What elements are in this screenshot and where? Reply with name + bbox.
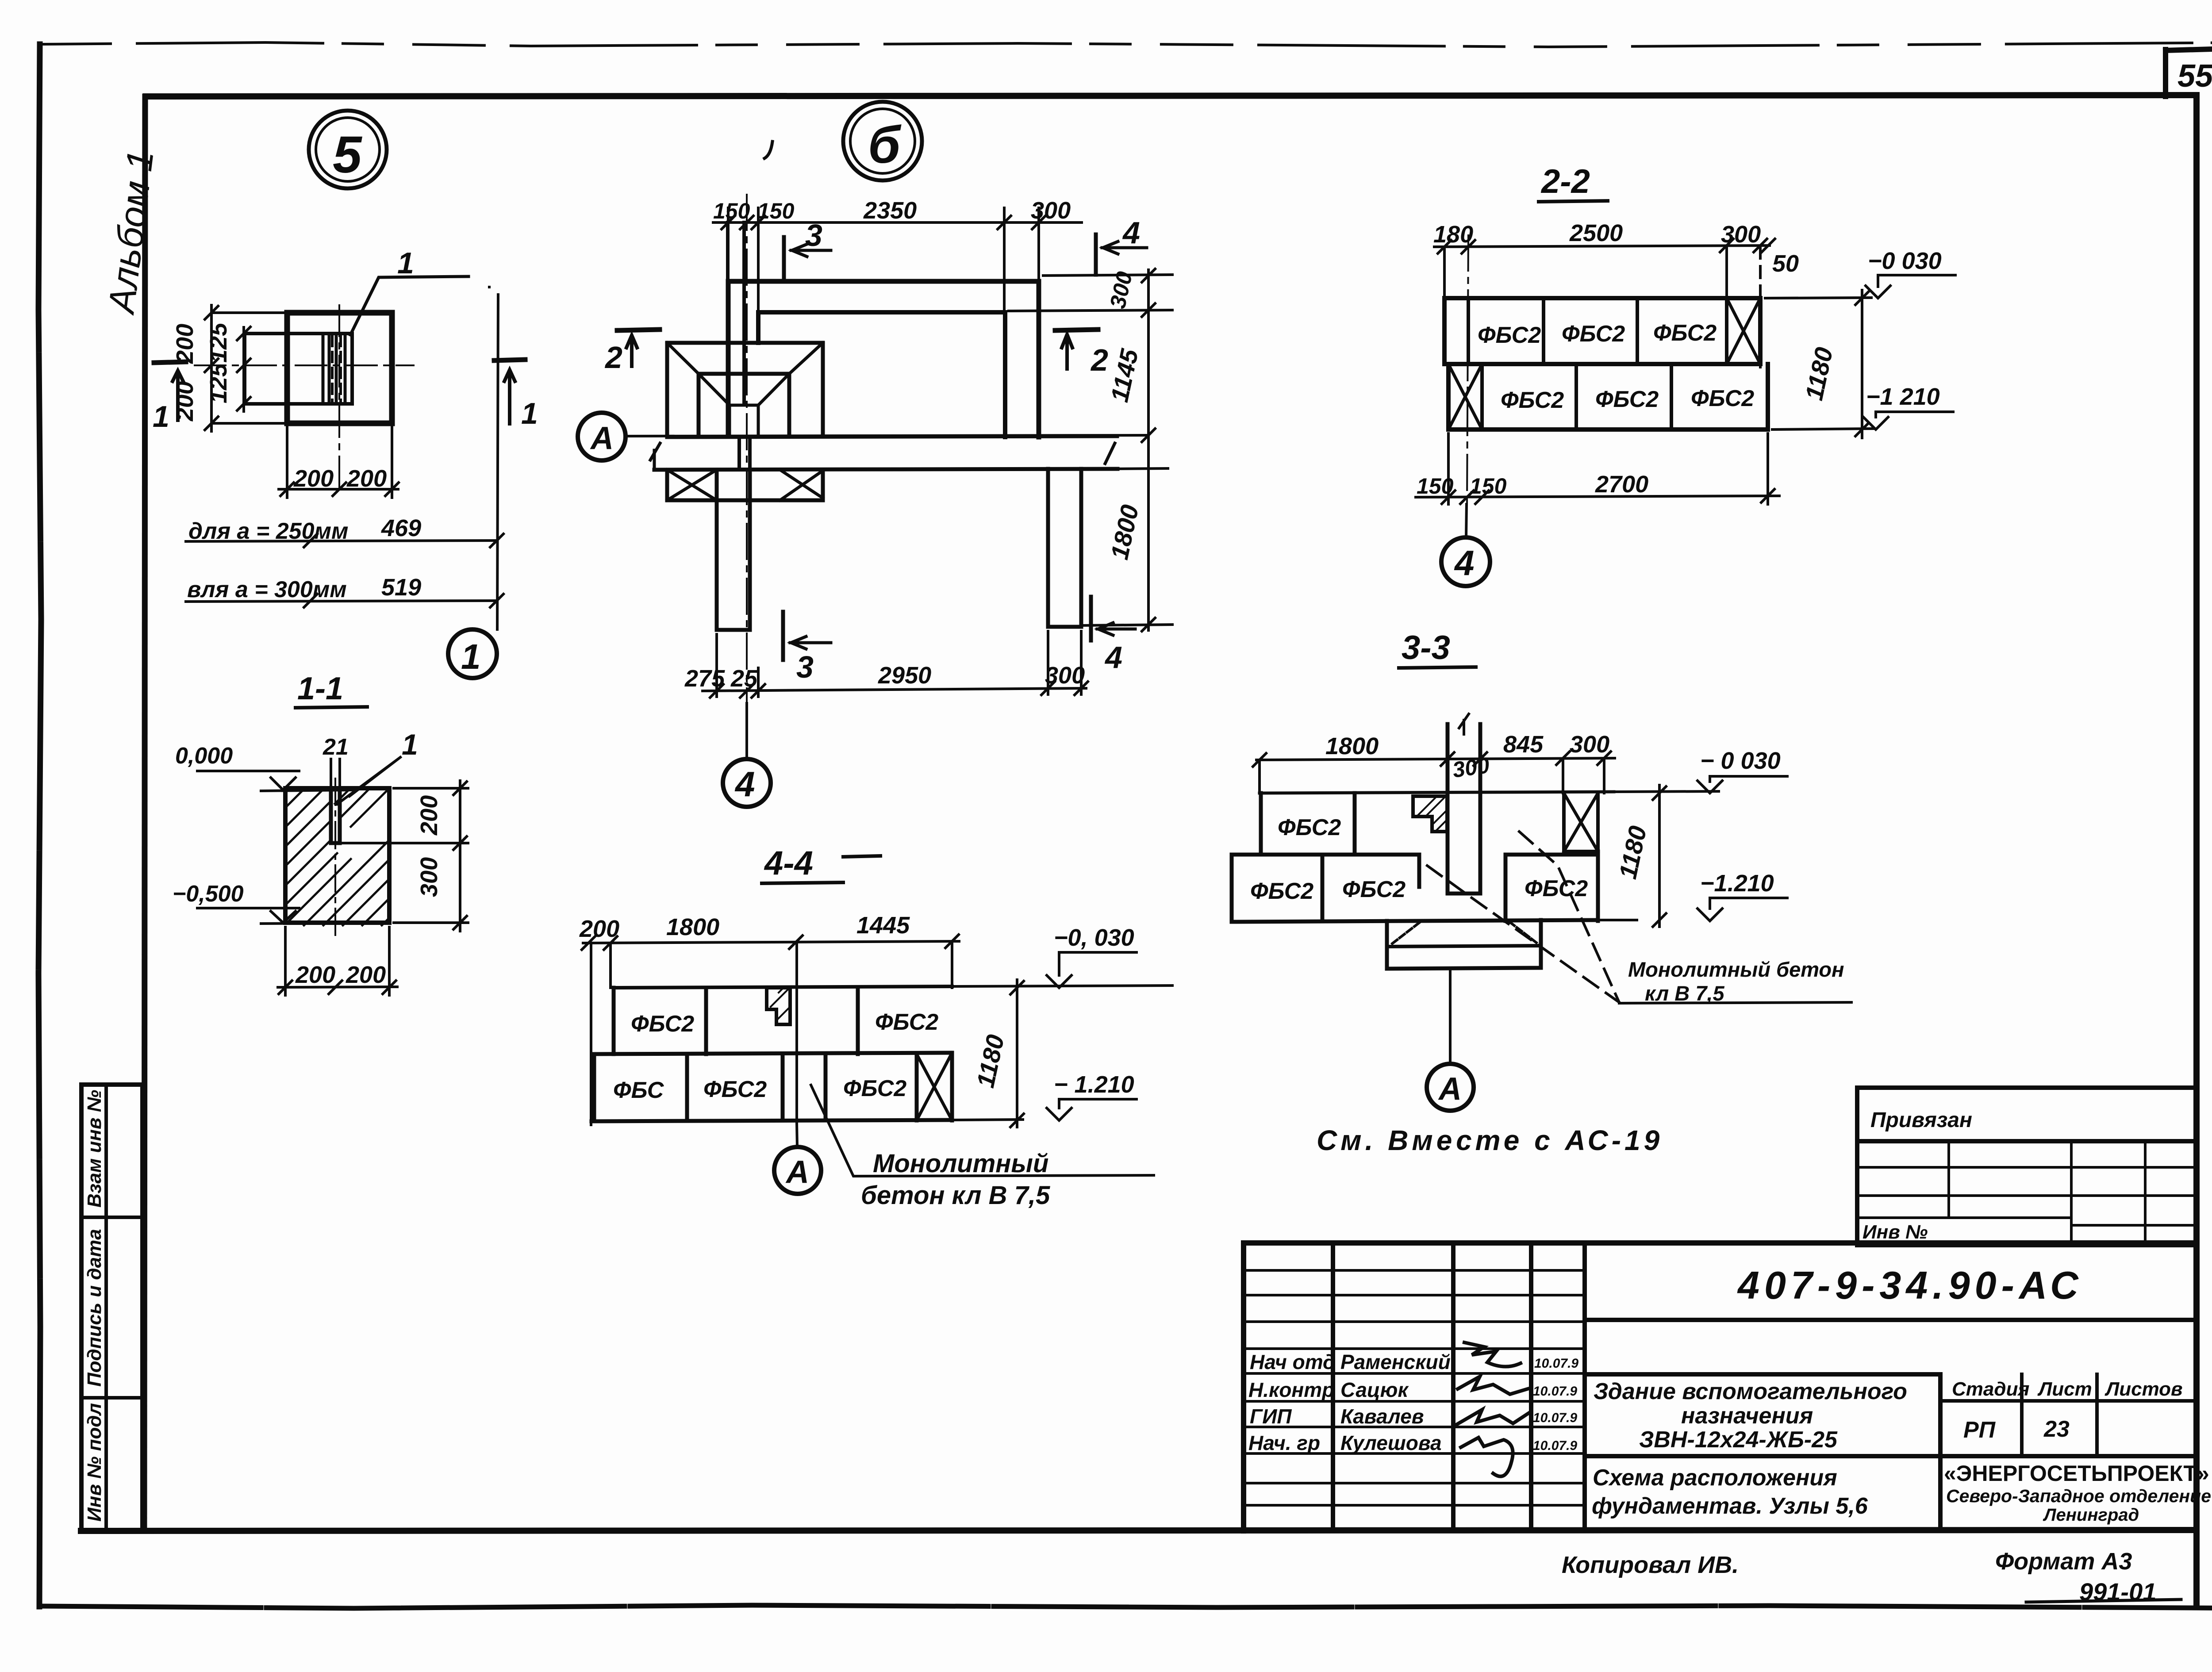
section 3-3 row B — [1232, 851, 1637, 922]
svg-text:б: б — [868, 116, 902, 174]
section 3-3 axis circle A — [1427, 969, 1474, 1111]
svg-text:125: 125 — [205, 363, 232, 403]
section 3-3 level -0.030 — [1697, 748, 1787, 793]
detail 5 table row a=250 — [186, 515, 503, 547]
svg-text:ФБС2: ФБС2 — [1525, 876, 1588, 901]
стадия лист листов — [1940, 1374, 2197, 1456]
svg-text:−0,500: −0,500 — [173, 881, 244, 907]
svg-text:200: 200 — [295, 962, 335, 988]
node circle 4 below — [723, 703, 771, 807]
svg-text:−1.210: −1.210 — [1700, 870, 1774, 897]
detail Б right dim chain 300 1145 1800 — [1009, 269, 1172, 631]
svg-text:Инв №: Инв № — [1863, 1221, 1928, 1243]
svg-text:300: 300 — [1451, 753, 1491, 782]
svg-text:4: 4 — [1104, 640, 1122, 675]
svg-text:1: 1 — [402, 728, 418, 761]
section 1-1 label — [296, 671, 367, 708]
svg-text:фундаментав. Узлы 5,6: фундаментав. Узлы 5,6 — [1592, 1493, 1868, 1519]
svg-text:Здание вспомогательного: Здание вспомогательного — [1594, 1379, 1907, 1404]
sheet number box top-right — [2166, 49, 2212, 96]
svg-text:200: 200 — [172, 381, 198, 422]
section 4-4 label — [762, 844, 880, 883]
svg-text:Взам инв №: Взам инв № — [84, 1090, 105, 1208]
svg-text:ЗВН-12х24-ЖБ-25: ЗВН-12х24-ЖБ-25 — [1639, 1427, 1838, 1453]
detail Б circle marker — [843, 102, 922, 180]
svg-text:2350: 2350 — [863, 197, 917, 224]
svg-text:ГИП: ГИП — [1250, 1405, 1292, 1428]
detail Б lower pad — [667, 470, 823, 500]
svg-text:3: 3 — [796, 650, 814, 684]
svg-text:125: 125 — [205, 322, 232, 363]
svg-text:Подпись и дата: Подпись и дата — [84, 1229, 105, 1387]
svg-text:Монолитный бетон: Монолитный бетон — [1628, 958, 1844, 981]
section 3-3 socket base — [1387, 920, 1541, 969]
svg-text:Н.контр: Н.контр — [1248, 1378, 1334, 1401]
svg-text:300: 300 — [1570, 731, 1609, 758]
svg-text:ФБС2: ФБС2 — [1250, 878, 1313, 904]
left stamp column table — [81, 1085, 142, 1531]
svg-text:Кулешова: Кулешова — [1340, 1431, 1442, 1454]
detail Б wall inner line — [758, 312, 1005, 437]
svg-text:А: А — [590, 421, 614, 456]
svg-text:2: 2 — [604, 340, 622, 375]
svg-text:55: 55 — [2177, 58, 2212, 94]
svg-text:21: 21 — [323, 734, 349, 760]
svg-text:Монолитный: Монолитный — [873, 1149, 1048, 1178]
svg-text:Северо-Западное отделение: Северо-Западное отделение — [1946, 1486, 2211, 1506]
detail 5 dim chain 125/125 — [205, 322, 250, 411]
section 3-3 column — [1448, 714, 1480, 894]
svg-text:А: А — [785, 1154, 809, 1190]
name box — [1585, 1374, 2197, 1456]
title block column lines left part — [1333, 1243, 1585, 1531]
section 2-2 level -0.030 — [1866, 248, 1955, 298]
svg-text:1-1: 1-1 — [297, 671, 343, 706]
section 3-3 level -1.210 — [1697, 870, 1787, 921]
svg-text:1800: 1800 — [666, 914, 719, 940]
svg-text:ФБС2: ФБС2 — [703, 1077, 767, 1102]
detail 5 plan: centre line vertical — [338, 305, 340, 493]
svg-text:50: 50 — [1772, 250, 1799, 277]
axis A circle — [578, 413, 626, 460]
svg-text:Стадия: Стадия — [1952, 1378, 2029, 1400]
svg-text:25: 25 — [730, 665, 758, 692]
svg-text:Нач отд: Нач отд — [1250, 1350, 1335, 1373]
section 1-1 bottom dims 200/200 — [278, 927, 397, 995]
section 3-3 leaders to monolith — [1427, 832, 1851, 1003]
svg-text:2700: 2700 — [1595, 471, 1648, 498]
svg-text:ФБС2: ФБС2 — [1691, 386, 1754, 411]
svg-text:200: 200 — [346, 465, 387, 492]
doc number box — [1585, 1318, 2197, 1322]
section 2-2 node circle 4 — [1441, 504, 1490, 586]
detail Б descending pier — [717, 470, 750, 630]
stray mark — [764, 142, 772, 158]
section cut 4 bottom — [1091, 597, 1135, 675]
detail 5 circle marker — [309, 111, 387, 188]
detail 5 section cut 1 left — [153, 362, 186, 433]
привязан table — [1857, 1088, 2197, 1245]
svg-text:4-4: 4-4 — [764, 844, 813, 882]
svg-text:−0 030: −0 030 — [1868, 248, 1942, 274]
svg-text:2500: 2500 — [1569, 220, 1623, 246]
section 3-3 top surface line — [1260, 792, 1614, 793]
svg-text:2-2: 2-2 — [1540, 163, 1590, 200]
detail 5 plan: thick square — [287, 313, 392, 423]
detail 5 leader 1 — [350, 246, 469, 335]
section 1-1 right dims 200/300 — [343, 781, 468, 931]
svg-text:ФБС2: ФБС2 — [1653, 320, 1717, 346]
svg-text:бетон кл В 7,5: бетон кл В 7,5 — [861, 1181, 1050, 1210]
section cut 2 right — [1055, 330, 1108, 377]
svg-text:вля а = 300мм: вля а = 300мм — [187, 577, 347, 602]
svg-text:300: 300 — [416, 857, 442, 897]
svg-text:200: 200 — [293, 465, 334, 492]
axis A line — [626, 435, 1146, 436]
svg-text:Листов: Листов — [2104, 1378, 2183, 1400]
detail 5 dim chain 200/200 — [172, 305, 218, 431]
section 1-1 centreline — [334, 778, 336, 937]
svg-text:Инв № подл: Инв № подл — [84, 1403, 105, 1522]
svg-text:407-9-34.90-АС: 407-9-34.90-АС — [1737, 1263, 2083, 1307]
section 1-1 hatched block — [285, 788, 389, 925]
svg-text:1: 1 — [397, 246, 414, 280]
svg-text:Схема расположения: Схема расположения — [1593, 1465, 1837, 1491]
section 4-4 monolith leader — [811, 1085, 1154, 1210]
svg-text:1: 1 — [521, 397, 538, 430]
title block row lines left part — [1244, 1270, 1585, 1505]
title block outline — [1244, 1243, 2197, 1531]
detail Б wall outer rect — [728, 281, 1039, 437]
svg-text:Кавалев: Кавалев — [1340, 1405, 1424, 1428]
svg-text:2950: 2950 — [878, 662, 931, 689]
scan outer border bottom — [40, 1605, 2212, 1608]
svg-text:519: 519 — [381, 574, 421, 601]
svg-text:−1 210: −1 210 — [1866, 383, 1940, 410]
section 1-1 slot width 21 — [323, 734, 349, 785]
detail 5 plan: inner recess rect — [245, 334, 352, 404]
svg-text:200: 200 — [579, 916, 619, 942]
svg-text:150: 150 — [1470, 474, 1507, 499]
svg-text:ФБС2: ФБС2 — [843, 1076, 906, 1101]
section 4-4 level -0,030 — [1047, 924, 1137, 988]
svg-text:200: 200 — [346, 962, 386, 988]
svg-text:10.07.9: 10.07.9 — [1533, 1384, 1577, 1399]
svg-text:−0, 030: −0, 030 — [1054, 924, 1134, 951]
svg-text:1: 1 — [153, 400, 169, 433]
scan outer border left — [38, 44, 41, 1607]
svg-text:Привязан: Привязан — [1870, 1108, 1972, 1132]
svg-text:Сацюк: Сацюк — [1340, 1378, 1409, 1401]
svg-text:Лист: Лист — [2037, 1378, 2092, 1400]
svg-text:Раменский: Раменский — [1340, 1350, 1451, 1373]
section cut 2 left — [604, 330, 660, 375]
section 2-2 row2 blocks — [1448, 364, 1768, 430]
detail 5 plan: centre line horizontal — [195, 364, 414, 366]
detail Б column axis centreline — [746, 195, 748, 752]
svg-text:4: 4 — [1122, 215, 1140, 250]
svg-text:− 0 030: − 0 030 — [1700, 748, 1781, 774]
svg-text:Копировал ИВ.: Копировал ИВ. — [1562, 1552, 1739, 1578]
svg-text:ФБС2: ФБС2 — [1501, 387, 1564, 413]
svg-text:ФБС2: ФБС2 — [631, 1011, 694, 1037]
detail 5 table row a=300 — [186, 574, 503, 607]
section 4-4 level -1.210 — [1047, 1071, 1137, 1120]
svg-text:5: 5 — [333, 126, 363, 184]
section 4-4 row2 — [591, 1053, 1023, 1121]
section 2-2 right dim 1180 — [1765, 290, 1874, 438]
svg-text:ФБС2: ФБС2 — [1562, 321, 1625, 347]
detail 5 plan: outer thin rect — [211, 313, 287, 423]
detail 5 plan: element 1 strips — [323, 334, 345, 404]
section 2-2 axis centreline — [1467, 235, 1468, 504]
svg-text:2: 2 — [1090, 343, 1108, 377]
node circle 1 — [448, 629, 497, 678]
svg-text:300: 300 — [1031, 197, 1071, 224]
svg-text:10.07.9: 10.07.9 — [1533, 1438, 1577, 1453]
svg-text:3: 3 — [805, 218, 822, 253]
svg-text:«ЭНЕРГОСЕТЬПРОЕКТ»: «ЭНЕРГОСЕТЬПРОЕКТ» — [1944, 1461, 2209, 1486]
svg-text:А: А — [1438, 1071, 1462, 1107]
detail Б bottom dims 275 25 2950 300 — [684, 631, 1088, 698]
svg-text:назначения: назначения — [1681, 1403, 1813, 1429]
section 2-2 top dims — [1433, 220, 1799, 367]
svg-text:См. Вместе с АС-19: См. Вместе с АС-19 — [1317, 1124, 1663, 1156]
svg-text:23: 23 — [2043, 1416, 2070, 1442]
svg-text:кл В 7,5: кл В 7,5 — [1645, 982, 1724, 1005]
section 3-3 label — [1399, 629, 1476, 668]
svg-text:4: 4 — [734, 764, 755, 804]
svg-text:Нач. гр: Нач. гр — [1248, 1431, 1320, 1454]
detail Б column strips — [728, 222, 750, 469]
svg-text:Формат А3: Формат А3 — [1995, 1548, 2132, 1575]
section 1-1 leader 1 — [337, 728, 418, 804]
section 4-4 axis line — [795, 942, 798, 1124]
svg-text:469: 469 — [381, 515, 421, 541]
scan outer border top (dashed) — [40, 42, 2212, 47]
svg-text:4: 4 — [1454, 543, 1475, 583]
detail Б right pier — [1048, 469, 1081, 627]
detail 5 bottom dim 200/200 — [279, 287, 489, 498]
detail Б upper pad — [667, 343, 823, 436]
section 2-2 label — [1539, 163, 1608, 202]
section 3-3 top dims — [1253, 731, 1615, 793]
section 4-4 right dim 1180 — [971, 980, 1024, 1127]
svg-text:1800: 1800 — [1325, 733, 1379, 759]
section cut 3 top — [784, 218, 831, 278]
svg-text:Ленинград: Ленинград — [2043, 1505, 2139, 1525]
detail Б wall band along A — [650, 436, 1118, 470]
svg-text:0,000: 0,000 — [175, 743, 233, 769]
svg-text:− 1.210: − 1.210 — [1054, 1071, 1134, 1098]
svg-text:ФБС2: ФБС2 — [1342, 877, 1406, 902]
svg-text:180: 180 — [1433, 221, 1473, 248]
section 4-4 row1 — [614, 987, 938, 1054]
section 4-4 top dims — [579, 912, 959, 1125]
svg-text:ФБС2: ФБС2 — [1595, 387, 1659, 412]
svg-text:10.07.9: 10.07.9 — [1534, 1356, 1578, 1371]
svg-text:1: 1 — [461, 637, 481, 676]
section 2-2 level -1.210 — [1863, 383, 1953, 430]
section 1-1 level -0,500 — [173, 881, 356, 924]
svg-text:ФБС2: ФБС2 — [875, 1009, 938, 1035]
svg-text:845: 845 — [1503, 731, 1544, 758]
section cut 4 top — [1096, 215, 1147, 275]
signatures squiggles — [1464, 1342, 1521, 1367]
svg-text:1445: 1445 — [856, 912, 910, 939]
section 4-4 node circle A — [774, 1124, 821, 1194]
detail Б top dims 150 150 2350 300 — [713, 197, 1082, 312]
detail 5 section cut 1 right — [494, 360, 538, 430]
section cut 3 bottom — [783, 612, 831, 684]
svg-text:ФБС2: ФБС2 — [1278, 815, 1341, 840]
section 3-3 right dim 1180 — [1613, 785, 1666, 927]
section 3-3 row A — [1261, 793, 1598, 855]
svg-text:РП: РП — [1963, 1417, 1996, 1443]
section 2-2 bottom dims — [1416, 433, 1779, 504]
svg-text:ФБС2: ФБС2 — [1478, 322, 1541, 348]
section 1-1 level 0,000 — [175, 743, 354, 791]
svg-text:10.07.9: 10.07.9 — [1533, 1411, 1577, 1425]
svg-text:3-3: 3-3 — [1402, 629, 1450, 667]
section 3-3 monolith text — [1628, 958, 1844, 1005]
svg-text:200: 200 — [416, 795, 442, 836]
svg-text:ФБС: ФБС — [613, 1078, 664, 1103]
section 2-2 row1 blocks — [1444, 298, 1760, 364]
detail 5 vertical ref line to circle 1 — [497, 295, 498, 629]
section 4-4 top surface — [614, 986, 952, 988]
svg-text:200: 200 — [172, 324, 198, 364]
